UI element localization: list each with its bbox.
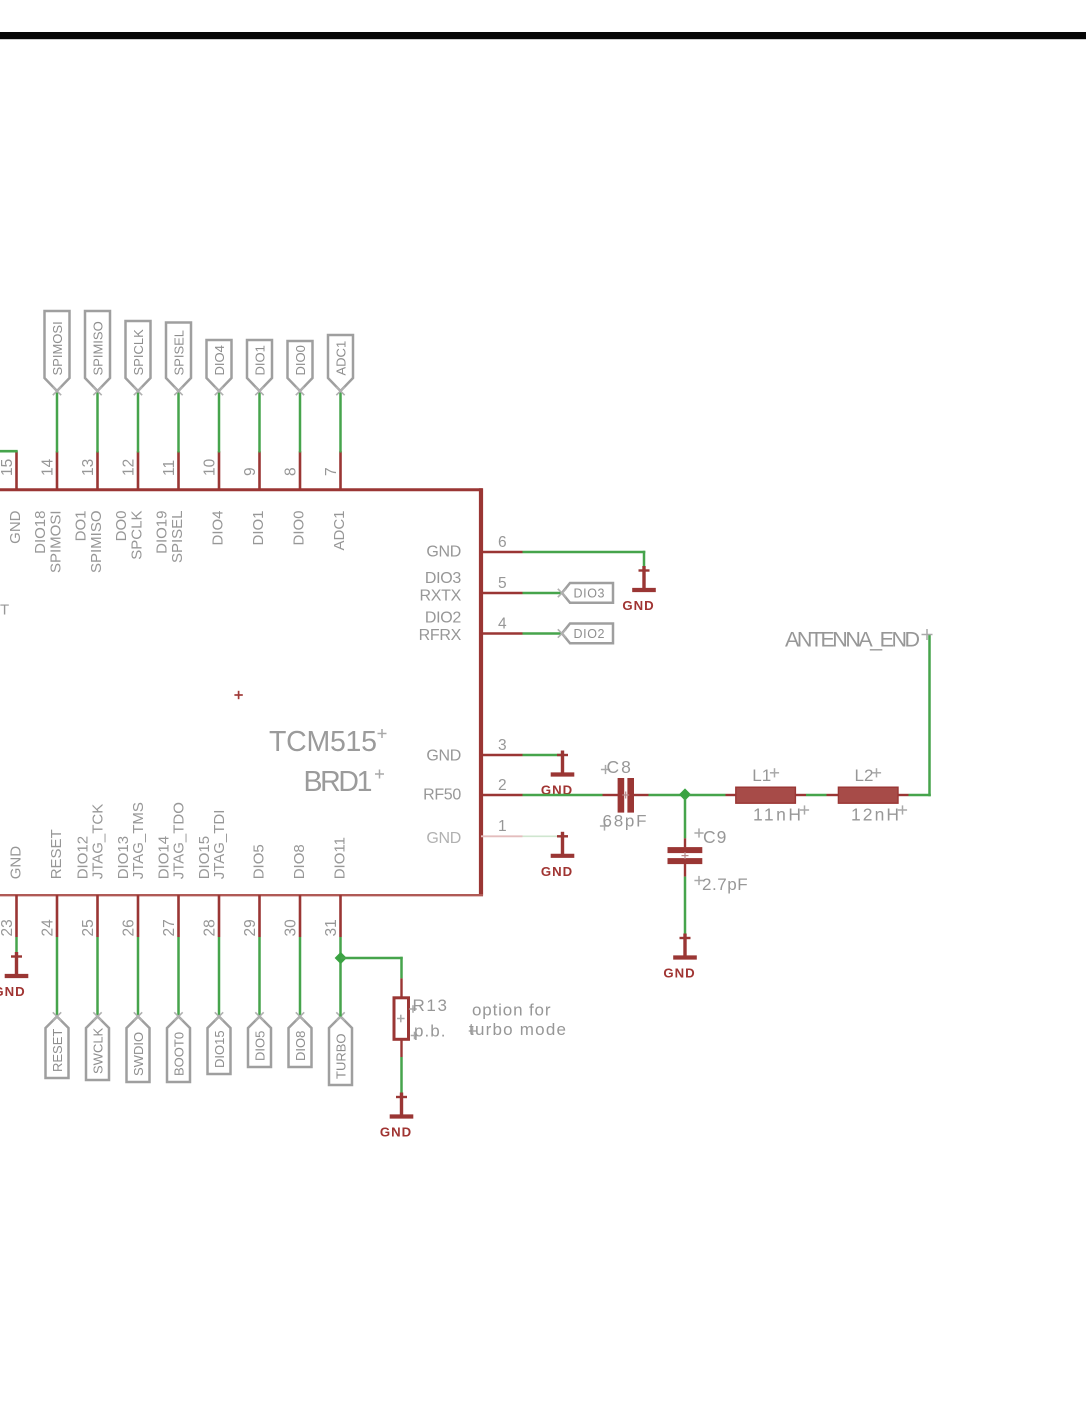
node BOOT0 flag [167,1017,190,1083]
wire net DIO3 [523,592,563,595]
svg-text:L1: L1 [752,766,771,785]
pin 1 faint wire [523,835,563,837]
label R13 [409,1005,417,1013]
wire C9 to ground [684,877,687,938]
svg-text:DIO5: DIO5 [252,1031,267,1061]
wire pin6 GND net [523,551,646,554]
pin 27 stub (bottom) [177,895,180,937]
svg-text:DIO0: DIO0 [291,511,308,546]
svg-text:DIO15: DIO15 [212,1030,227,1068]
capacitor C9 [668,847,703,853]
pin 26 stub (bottom) [137,895,140,937]
node DIO0 flag [288,341,313,391]
resistor R13 [394,998,409,1040]
op-amp U1 TCM515 BRD1 module body [0,489,482,895]
wire pin31 to junction to TURBO [339,937,342,1017]
svg-text:DIO19: DIO19 [154,511,171,554]
svg-text:GND: GND [8,846,25,880]
ground GND (C9) [663,934,696,981]
svg-text:12nH: 12nH [851,805,899,825]
value 2.7pF [694,876,703,885]
node SPISEL flag [166,323,191,392]
svg-text:turbo mode: turbo mode [469,1020,566,1039]
svg-text:BRD1: BRD1 [304,766,373,798]
wire net DIO4 [218,391,221,453]
svg-text:DIO2: DIO2 [574,627,606,641]
svg-text:24: 24 [40,919,57,937]
node SWCLK flag [86,1017,109,1081]
svg-text:31: 31 [323,919,340,936]
pin 7 stub (top) [339,451,342,489]
value 68pF [600,821,609,830]
wire L2 to antenna [909,794,931,797]
capacitor C8 [618,778,625,813]
pin 12 stub (top) [137,451,140,489]
svg-text:R13: R13 [413,996,448,1015]
wire R13 to ground [400,1057,403,1097]
svg-text:JTAG_TCK: JTAG_TCK [90,804,107,880]
svg-text:5: 5 [498,575,507,592]
black header bar [0,32,1086,39]
wire ANTENNA_END vertical [928,635,931,797]
pin 1 stub (faint) [481,835,523,837]
svg-text:6: 6 [498,534,507,551]
node SWDIO flag [127,1017,150,1083]
svg-text:DIO8: DIO8 [291,844,308,879]
svg-text:SPICLK: SPICLK [131,329,146,376]
svg-text:RESET: RESET [50,1029,65,1072]
pin 24 stub (bottom) [56,895,59,937]
svg-text:2: 2 [498,777,507,794]
wire net DIO5 [258,937,261,1017]
pin 9 stub (top) [258,451,261,489]
pin 8 stub (top) [299,451,302,489]
resistor R13 pins [400,978,402,997]
capacitor C9 pins [684,838,686,847]
wire net SPIMISO [96,391,99,453]
pin 15 stub (top) [15,451,18,489]
wire net SWCLK [96,937,99,1017]
svg-text:DIO4: DIO4 [212,345,227,375]
label C8 [601,765,610,774]
svg-text:29: 29 [242,919,259,936]
svg-text:GND: GND [0,984,26,999]
wire net DIO1 [258,391,261,453]
svg-text:7: 7 [323,467,340,476]
svg-text:GND: GND [7,510,24,544]
wire net SWDIO [137,937,140,1017]
svg-text:DO1: DO1 [73,511,90,542]
svg-text:L2: L2 [855,766,874,785]
wire net DIO2 [523,632,563,635]
svg-text:GND: GND [380,1125,412,1140]
svg-text:26: 26 [121,919,138,936]
ground GND (pin 1) [541,832,574,879]
svg-text:SPIMISO: SPIMISO [88,511,105,574]
svg-text:DIO11: DIO11 [332,837,349,879]
ground GND (R13) [380,1093,413,1140]
pin 11 stub (top) [177,451,180,489]
inductor L2 pins [827,794,840,796]
svg-text:C9: C9 [703,827,727,847]
wire pin23 to ground [15,937,18,957]
svg-text:9: 9 [242,467,259,476]
wire net SPICLK [137,391,140,453]
svg-text:11: 11 [161,460,178,476]
svg-text:GND: GND [663,966,695,981]
svg-text:ANTENNA_END: ANTENNA_END [785,628,920,652]
wire net BOOT0 [177,937,180,1017]
svg-text:11nH: 11nH [753,805,801,825]
svg-text:RF50: RF50 [423,787,461,804]
svg-text:DIO3: DIO3 [425,570,462,587]
svg-text:DIO5: DIO5 [251,844,268,879]
node DIO2 flag [562,624,613,644]
svg-text:JTAG_TDO: JTAG_TDO [171,802,188,879]
pin 30 stub (bottom) [299,895,302,937]
node SPIMOSI flag [45,311,70,391]
pin 2 stub [481,794,523,797]
svg-text:30: 30 [283,919,300,937]
wire net SPIMOSI [56,391,59,453]
node DIO15 flag [208,1017,231,1075]
svg-text:DIO0: DIO0 [293,345,308,375]
svg-text:SWCLK: SWCLK [90,1027,105,1074]
pin 6 stub [481,551,523,554]
pin 29 stub (bottom) [258,895,261,937]
svg-text:ADC1: ADC1 [331,511,348,551]
pin 4 stub [481,632,523,635]
svg-text:GND: GND [541,864,573,879]
ground GND (pin 3) [541,751,574,798]
pin 10 stub (top) [218,451,221,489]
svg-text:TURBO: TURBO [333,1034,348,1080]
svg-text:p.b.: p.b. [414,1022,446,1041]
node SPICLK flag [126,321,151,391]
svg-text:TCM515: TCM515 [269,726,377,758]
svg-text:option for: option for [472,1001,551,1020]
inductor L2 [838,787,898,803]
svg-text:T: T [0,602,9,619]
value p.b. [411,1032,419,1040]
svg-text:DIO18: DIO18 [32,511,49,554]
svg-text:2.7pF: 2.7pF [702,875,748,894]
inductor L1 [736,787,796,803]
svg-text:4: 4 [498,616,507,633]
svg-text:SPISEL: SPISEL [169,511,186,564]
svg-text:12: 12 [121,459,138,476]
svg-text:DIO1: DIO1 [250,511,267,546]
wire RF50 net [523,794,603,797]
svg-text:68pF: 68pF [603,812,647,831]
node SPIMISO flag [85,311,110,391]
svg-text:1: 1 [498,818,507,835]
node DIO4 flag [207,340,232,391]
label C9 [694,828,703,837]
wire junction down to C9 [684,799,687,839]
pin 28 stub (bottom) [218,895,221,937]
svg-text:14: 14 [40,458,57,476]
node junction (pin31) [335,952,347,964]
svg-text:JTAG_TMS: JTAG_TMS [130,802,147,879]
svg-text:10: 10 [202,458,219,476]
svg-text:GND: GND [426,748,461,765]
node origin cross (module) [234,691,242,699]
svg-text:SPISEL: SPISEL [171,330,186,376]
svg-text:DIO8: DIO8 [293,1031,308,1061]
wire net DIO15 [218,937,221,1017]
pin 5 stub [481,592,523,595]
svg-text:BOOT0: BOOT0 [171,1032,186,1076]
svg-text:SPIMISO: SPIMISO [90,321,105,375]
wire junction to L1 [689,794,726,797]
wire net SPISEL [177,391,180,453]
pin 23 stub (bottom) [15,895,18,937]
svg-text:DIO3: DIO3 [574,586,606,600]
ground GND (pin 23) [0,952,28,999]
svg-text:C8: C8 [607,757,633,777]
svg-text:15: 15 [0,459,16,476]
wire L1 to L2 [806,794,827,797]
svg-text:DO0: DO0 [113,511,130,542]
wire net RESET [56,937,59,1017]
pin 31 stub (bottom) [339,895,342,937]
svg-text:JTAG_TDI: JTAG_TDI [211,810,228,880]
svg-text:13: 13 [80,459,97,476]
svg-text:SPIMOSI: SPIMOSI [50,321,65,375]
svg-text:SPIMOSI: SPIMOSI [48,511,65,574]
svg-text:GND: GND [622,598,654,613]
node RESET flag [46,1017,69,1079]
pin 14 stub (top) [56,451,59,489]
wire net ADC1 [339,391,342,453]
svg-text:27: 27 [161,919,178,936]
node ANTENNA_END [922,629,933,640]
pin 3 stub [481,754,523,757]
svg-text:ADC1: ADC1 [333,341,348,376]
node DIO3 flag [562,583,613,603]
capacitor C8 pins [603,794,619,796]
svg-text:GND: GND [426,544,461,561]
svg-text:28: 28 [202,919,219,936]
svg-text:RESET: RESET [48,829,65,879]
svg-text:GND: GND [426,830,461,847]
svg-text:DIO1: DIO1 [252,345,267,375]
wire net to pin 15 (exits left) [0,450,18,453]
ground GND (pin 6) [622,566,655,613]
pin 13 stub (top) [96,451,99,489]
wire net DIO8 [299,937,302,1017]
svg-text:8: 8 [283,467,300,476]
node DIO5 flag [248,1017,271,1068]
node DIO8 flag [289,1017,312,1068]
svg-text:DIO4: DIO4 [210,511,227,546]
pin 25 stub (bottom) [96,895,99,937]
svg-text:RFRX: RFRX [419,627,462,644]
svg-text:DIO2: DIO2 [425,610,462,627]
node RF junction [679,788,691,800]
svg-text:23: 23 [0,919,16,936]
node DIO1 flag [247,340,272,391]
svg-text:SPCLK: SPCLK [129,511,146,560]
inductor L1 pins [726,794,737,796]
node ADC1 flag [328,335,353,391]
wire net DIO0 [299,391,302,453]
svg-text:RXTX: RXTX [420,588,462,605]
wire pin3 GND net [523,754,563,757]
svg-text:3: 3 [498,737,507,754]
wire C8 to junction [649,794,682,797]
wire junction to R13 [341,957,403,960]
node TURBO flag [329,1017,352,1086]
svg-text:25: 25 [80,919,97,936]
svg-text:SWDIO: SWDIO [131,1032,146,1076]
